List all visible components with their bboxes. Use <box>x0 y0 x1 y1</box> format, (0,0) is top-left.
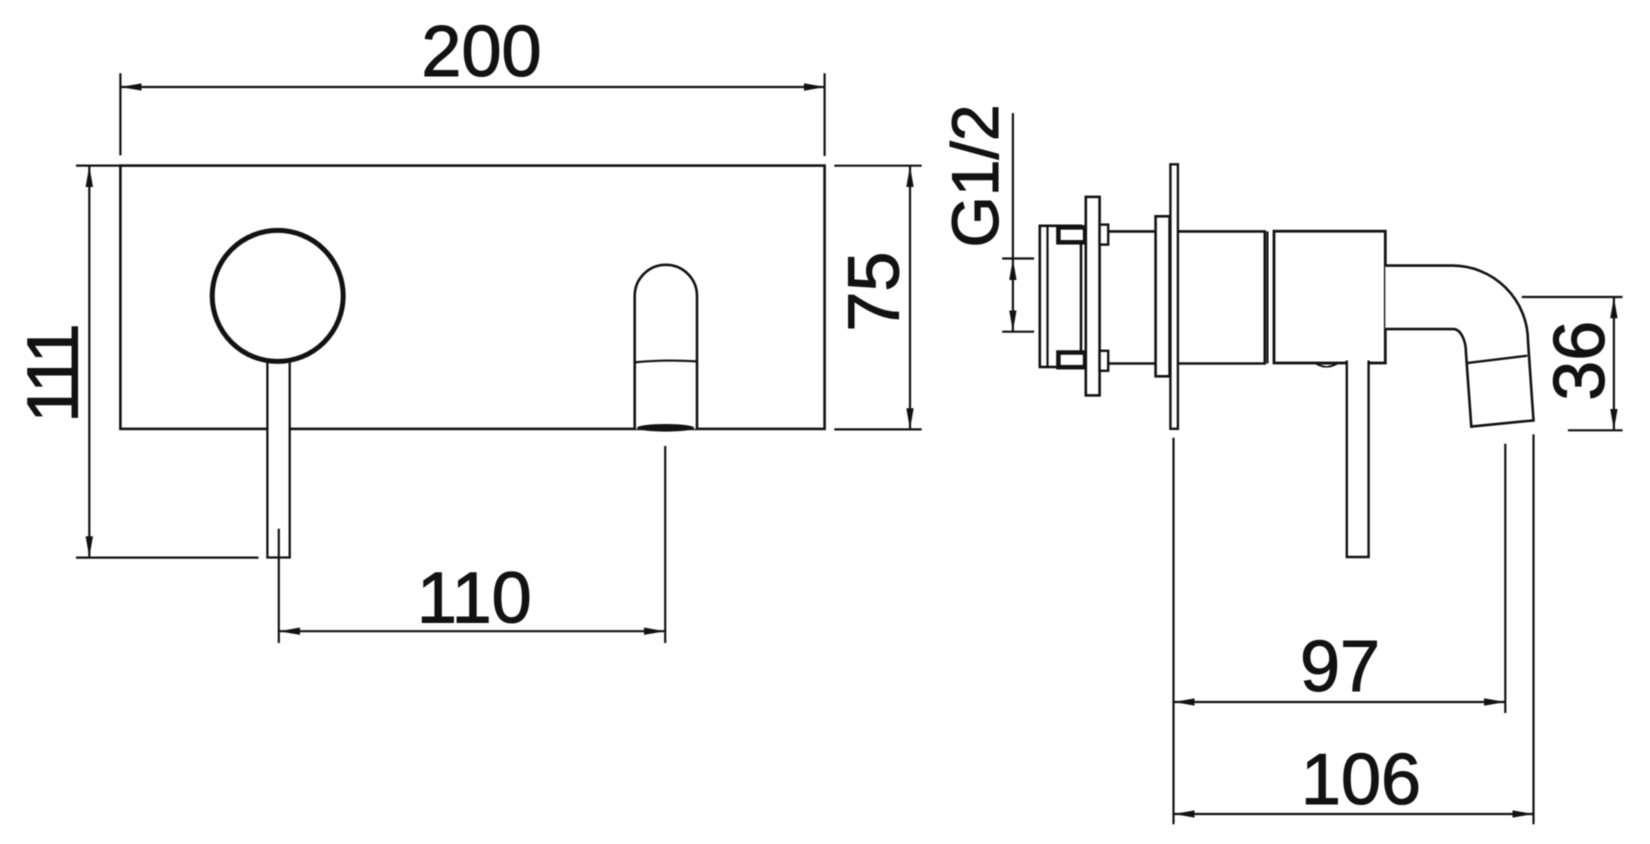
dim 110: extension lines <box>279 446 665 643</box>
side view: body cylinder <box>1108 231 1265 363</box>
side view: inlet block chamfer line <box>1046 226 1048 367</box>
dim 97/106: left extension line <box>1172 438 1174 824</box>
svg-text:111: 111 <box>14 326 94 422</box>
side view: drain bump (filled crescent) <box>1313 363 1341 368</box>
dim 36: extension lines <box>1522 297 1623 430</box>
side view: drain bump white sliver <box>1320 365 1333 367</box>
front view: handle lever rod <box>267 356 289 558</box>
svg-text:106: 106 <box>1301 740 1421 820</box>
svg-text:36: 36 <box>1540 321 1620 401</box>
dim 200: dimension line with arrows <box>121 86 825 88</box>
front view: aerator outlet (filled) <box>637 424 694 432</box>
dim 106: right extension line <box>1532 434 1534 824</box>
side view: handle lever rod <box>1347 361 1369 558</box>
dim G1/2: leader line <box>1012 113 1014 258</box>
dim 75: extension lines <box>834 166 921 430</box>
front view: spout joint line <box>635 361 697 363</box>
dim 110: dimension line with arrows <box>279 630 665 632</box>
dim 200: extension lines <box>120 73 824 156</box>
dim G1/2: dimension line with arrows <box>1012 259 1014 331</box>
side view: spout aerator cut line <box>1466 356 1528 364</box>
side view: mixer block <box>1274 231 1385 363</box>
side view: bottom nut stub <box>1100 351 1109 371</box>
front view: faceplate <box>120 166 824 429</box>
svg-text:200: 200 <box>421 12 541 92</box>
side view: spout <box>1385 266 1533 427</box>
svg-text:110: 110 <box>417 558 532 638</box>
dim 97: dimension line with arrows <box>1174 701 1505 703</box>
side view: wall plate (edge-on) <box>1170 164 1178 429</box>
side view: inlet block <box>1040 226 1081 367</box>
dim 106: dimension line with arrows <box>1174 813 1534 815</box>
svg-text:75: 75 <box>835 252 915 332</box>
svg-text:97: 97 <box>1300 627 1380 707</box>
side view: bottom screw <box>1058 353 1085 368</box>
dim 111: extension lines <box>76 166 259 558</box>
side view: trim collar <box>1156 216 1170 376</box>
dim 97: right extension line <box>1504 444 1506 713</box>
side view: top screw <box>1058 227 1085 242</box>
dim 36: dimension line with arrows <box>1613 297 1615 430</box>
side view: top nut stub <box>1100 225 1109 245</box>
front view: handle knob circle <box>212 230 343 361</box>
dim G1/2: ticks <box>1002 259 1034 332</box>
svg-text:G1/2: G1/2 <box>938 104 1012 247</box>
dim 111: dimension line with arrows <box>88 166 90 557</box>
dim 75: dimension line with arrows <box>909 166 911 429</box>
front view: spout body <box>635 265 697 429</box>
side view: cartridge joint line <box>1266 231 1268 363</box>
side view: first flange <box>1086 197 1100 396</box>
